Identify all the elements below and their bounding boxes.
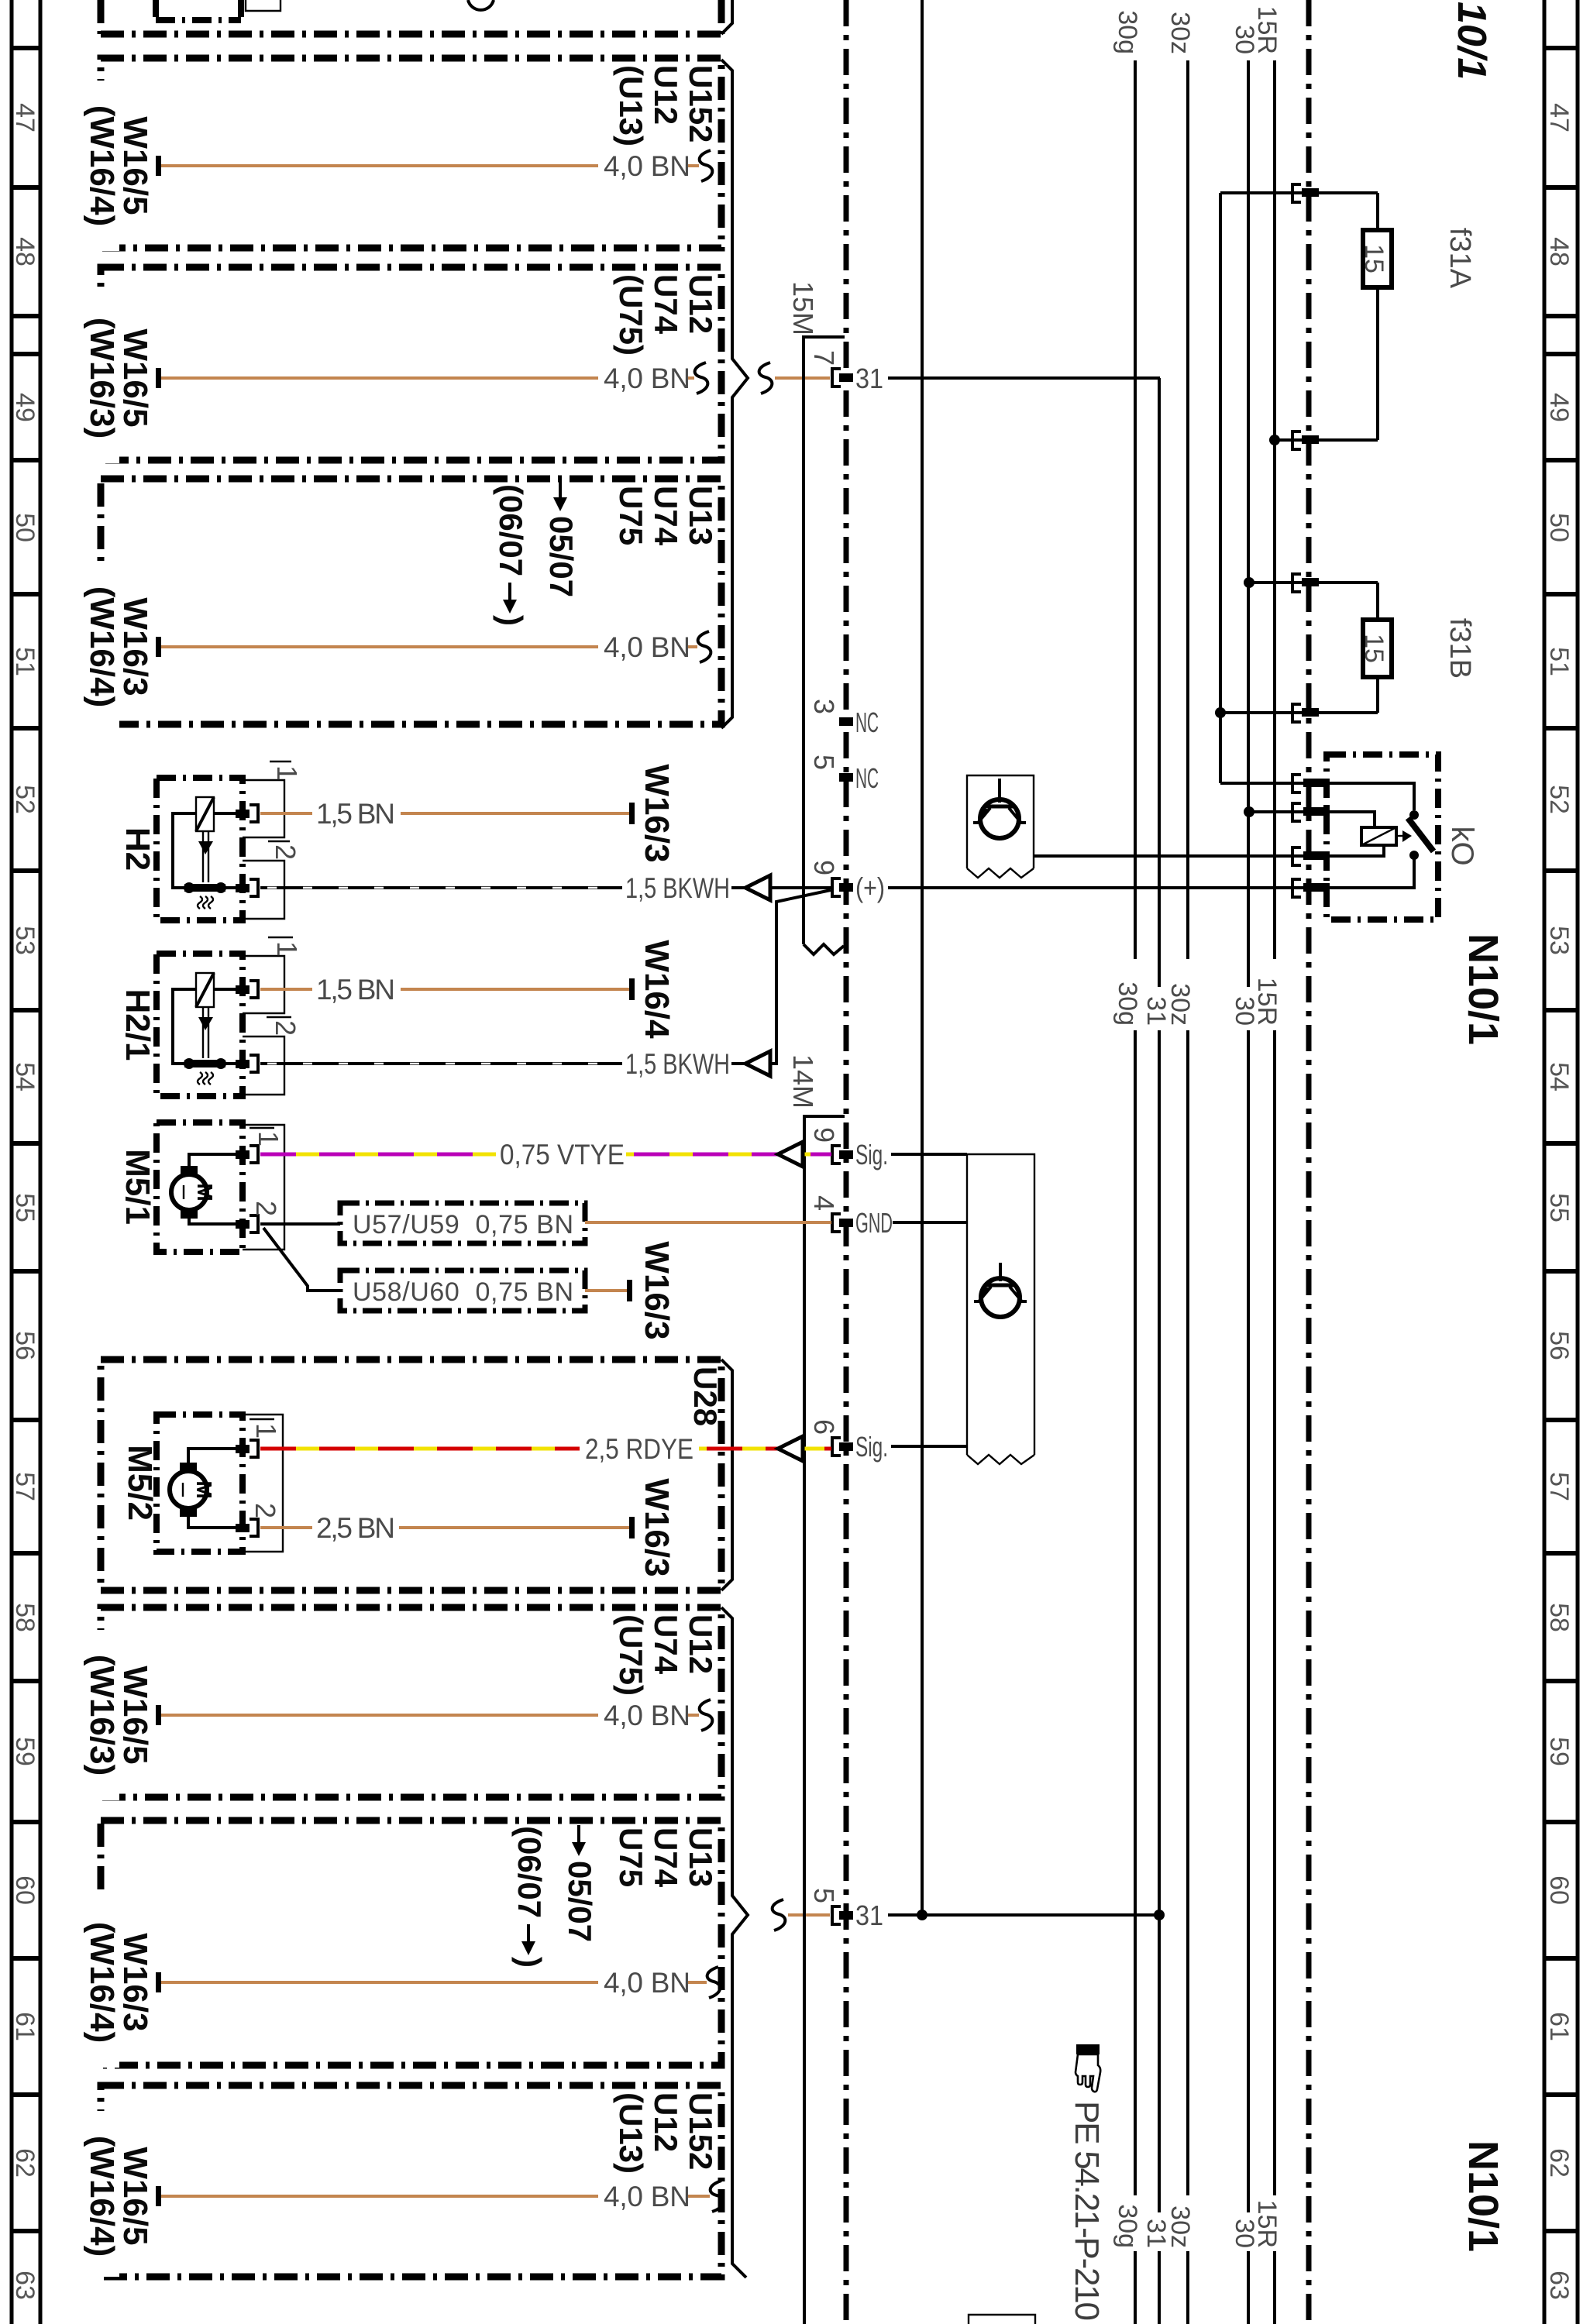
svg-text:48: 48 — [10, 237, 40, 266]
svg-text:1,5 BKWH: 1,5 BKWH — [625, 872, 730, 904]
svg-text:(U75): (U75) — [613, 1614, 649, 1696]
svg-text:1,5 BN: 1,5 BN — [316, 798, 395, 830]
svg-text:54: 54 — [1544, 1062, 1574, 1092]
svg-text:3: 3 — [808, 699, 840, 714]
svg-text:47: 47 — [1544, 103, 1574, 132]
svg-text:U12: U12 — [648, 65, 684, 125]
svg-text:55: 55 — [10, 1193, 40, 1222]
svg-text:0,75 VTYE: 0,75 VTYE — [500, 1139, 625, 1171]
svg-text:52: 52 — [1544, 785, 1574, 814]
svg-text:05/07: 05/07 — [562, 1861, 598, 1942]
svg-text:2,5 RDYE: 2,5 RDYE — [585, 1433, 693, 1465]
svg-text:30z: 30z — [1165, 2205, 1195, 2248]
svg-text:(W16/3): (W16/3) — [83, 1655, 121, 1776]
svg-text:U74: U74 — [648, 486, 684, 546]
svg-text:U75: U75 — [613, 486, 649, 545]
svg-text:5: 5 — [808, 1888, 840, 1903]
svg-text:H2: H2 — [119, 827, 157, 871]
svg-text:NC: NC — [855, 762, 879, 794]
svg-text:7: 7 — [808, 350, 840, 366]
svg-text:30g: 30g — [1113, 982, 1142, 1026]
svg-text:NC: NC — [855, 706, 879, 738]
svg-text:2: 2 — [270, 1020, 301, 1036]
svg-text:30g: 30g — [1113, 2204, 1142, 2248]
svg-text:GND: GND — [855, 1207, 893, 1239]
svg-text:15R: 15R — [1252, 6, 1282, 54]
svg-text:60: 60 — [10, 1875, 40, 1905]
svg-text:52: 52 — [10, 785, 40, 814]
svg-text:47: 47 — [10, 103, 40, 132]
svg-text:15: 15 — [1359, 634, 1389, 663]
svg-text:31: 31 — [855, 363, 883, 394]
svg-text:1: 1 — [253, 1131, 284, 1147]
svg-text:f31A: f31A — [1444, 228, 1476, 289]
svg-text:W16/3: W16/3 — [116, 1933, 154, 2031]
svg-text:49: 49 — [10, 393, 40, 422]
svg-text:31: 31 — [855, 1899, 883, 1931]
svg-text:4,0 BN: 4,0 BN — [604, 2181, 690, 2212]
svg-text:U12: U12 — [683, 1614, 719, 1674]
svg-text:N10/1: N10/1 — [1460, 2140, 1506, 2252]
svg-text:(W16/3): (W16/3) — [83, 318, 121, 438]
svg-text:6: 6 — [808, 1419, 840, 1435]
svg-text:1,5 BN: 1,5 BN — [316, 974, 395, 1006]
svg-text:2: 2 — [270, 844, 301, 860]
svg-text:): ) — [511, 1957, 548, 1968]
svg-text:kO: kO — [1445, 826, 1479, 865]
svg-text:50: 50 — [10, 513, 40, 542]
svg-text:U13: U13 — [683, 486, 719, 545]
svg-text:54: 54 — [10, 1062, 40, 1092]
svg-text:61: 61 — [10, 2012, 40, 2041]
svg-text:51: 51 — [1544, 647, 1574, 676]
svg-text:U152: U152 — [683, 2092, 719, 2170]
svg-text:63: 63 — [10, 2271, 40, 2300]
svg-text:PE 54.21-P-210: PE 54.21-P-210 — [1068, 2101, 1106, 2321]
svg-text:30z: 30z — [1165, 12, 1195, 54]
svg-text:Sig.: Sig. — [855, 1139, 888, 1171]
svg-text:f31B: f31B — [1444, 618, 1476, 679]
svg-text:M: M — [192, 1480, 216, 1498]
svg-text:58: 58 — [1544, 1603, 1574, 1632]
svg-text:): ) — [493, 615, 529, 626]
svg-text:U74: U74 — [648, 1614, 684, 1675]
svg-text:4,0 BN: 4,0 BN — [604, 1700, 690, 1731]
svg-text:15R: 15R — [1252, 2200, 1282, 2248]
svg-text:W16/5: W16/5 — [116, 1666, 154, 1764]
svg-text:1,5 BKWH: 1,5 BKWH — [625, 1048, 730, 1080]
svg-text:51: 51 — [10, 647, 40, 676]
svg-text:48: 48 — [1544, 237, 1574, 266]
svg-text:2,5 BN: 2,5 BN — [316, 1512, 395, 1544]
svg-text:(W16/4): (W16/4) — [83, 586, 121, 707]
svg-text:W16/3: W16/3 — [638, 1478, 676, 1576]
svg-text:(U13): (U13) — [613, 65, 649, 146]
svg-text:(W16/4): (W16/4) — [83, 1922, 121, 2043]
svg-text:U28: U28 — [687, 1367, 724, 1426]
svg-text:U74: U74 — [648, 1827, 684, 1888]
svg-text:1: 1 — [271, 941, 303, 957]
svg-text:2: 2 — [250, 1503, 281, 1518]
svg-text:4,0 BN: 4,0 BN — [604, 363, 690, 394]
svg-text:63: 63 — [1544, 2271, 1574, 2300]
svg-text:59: 59 — [10, 1737, 40, 1766]
svg-text:62: 62 — [1544, 2148, 1574, 2178]
svg-text:59: 59 — [1544, 1737, 1574, 1766]
svg-text:U75: U75 — [613, 1827, 649, 1887]
svg-text:57: 57 — [10, 1472, 40, 1501]
svg-text:15R: 15R — [1252, 978, 1282, 1026]
svg-text:H2/1: H2/1 — [119, 989, 157, 1061]
svg-text:W16/5: W16/5 — [116, 328, 154, 427]
svg-text:9: 9 — [808, 860, 840, 875]
svg-text:60: 60 — [1544, 1875, 1574, 1905]
svg-text:30z: 30z — [1165, 983, 1195, 1026]
svg-text:30g: 30g — [1113, 10, 1142, 54]
svg-text:U152: U152 — [683, 65, 719, 143]
svg-text:53: 53 — [1544, 926, 1574, 955]
svg-text:4,0 BN: 4,0 BN — [604, 150, 690, 182]
svg-text:(U75): (U75) — [613, 274, 649, 356]
svg-text:U57/U59 0,75 BN: U57/U59 0,75 BN — [353, 1210, 573, 1239]
svg-text:W16/3: W16/3 — [116, 597, 154, 696]
svg-text:56: 56 — [10, 1331, 40, 1360]
svg-text:15M: 15M — [787, 281, 819, 335]
svg-text:15: 15 — [1359, 244, 1389, 273]
svg-text:5: 5 — [808, 755, 840, 770]
svg-text:(06/07: (06/07 — [493, 484, 529, 576]
svg-text:55: 55 — [1544, 1193, 1574, 1222]
svg-text:U13: U13 — [683, 1827, 719, 1887]
svg-text:9: 9 — [808, 1127, 840, 1143]
svg-text:1: 1 — [250, 1423, 282, 1439]
svg-text:W16/5: W16/5 — [116, 116, 154, 215]
svg-text:4: 4 — [808, 1195, 840, 1211]
svg-text:1: 1 — [271, 765, 303, 781]
svg-text:(+): (+) — [855, 871, 885, 903]
svg-text:4,0 BN: 4,0 BN — [604, 1967, 690, 1999]
svg-text:(W16/4): (W16/4) — [83, 105, 121, 226]
svg-text:4,0 BN: 4,0 BN — [604, 631, 690, 663]
svg-text:Sig.: Sig. — [855, 1431, 888, 1463]
svg-text:10/1: 10/1 — [1449, 2, 1494, 80]
svg-text:50: 50 — [1544, 513, 1574, 542]
svg-text:M5/2: M5/2 — [121, 1445, 159, 1521]
svg-text:U58/U60 0,75 BN: U58/U60 0,75 BN — [353, 1277, 573, 1307]
svg-text:14M: 14M — [787, 1054, 819, 1109]
svg-text:(W16/4): (W16/4) — [83, 2136, 121, 2257]
svg-text:W16/4: W16/4 — [638, 940, 676, 1039]
svg-text:2: 2 — [250, 1201, 282, 1216]
svg-text:(U13): (U13) — [613, 2092, 649, 2174]
svg-text:53: 53 — [10, 926, 40, 955]
svg-text:62: 62 — [10, 2148, 40, 2178]
svg-text:U12: U12 — [648, 2092, 684, 2152]
svg-text:N10/1: N10/1 — [1460, 933, 1506, 1045]
svg-text:58: 58 — [10, 1603, 40, 1632]
svg-text:56: 56 — [1544, 1331, 1574, 1360]
svg-text:61: 61 — [1544, 2012, 1574, 2041]
svg-text:05/07: 05/07 — [543, 516, 580, 597]
svg-text:U12: U12 — [683, 274, 719, 334]
svg-text:M: M — [193, 1183, 217, 1201]
svg-text:W16/3: W16/3 — [638, 1241, 676, 1339]
svg-text:57: 57 — [1544, 1472, 1574, 1501]
svg-text:M5/1: M5/1 — [119, 1149, 157, 1225]
svg-text:49: 49 — [1544, 393, 1574, 422]
svg-text:W16/3: W16/3 — [638, 764, 676, 862]
svg-text:(06/07: (06/07 — [511, 1826, 548, 1918]
svg-text:U74: U74 — [648, 274, 684, 335]
svg-text:W16/5: W16/5 — [116, 2147, 154, 2245]
